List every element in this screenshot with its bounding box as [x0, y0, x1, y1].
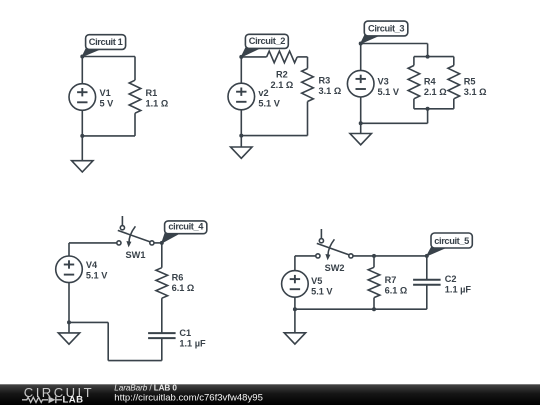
voltage source V3 [360, 44, 362, 71]
svg-text:Circuit 1: Circuit 1 [89, 37, 123, 47]
resistor R4 [413, 57, 415, 66]
logo: resistor zigzag [22, 397, 48, 402]
wire: circuit 4 bottom rail [108, 360, 162, 362]
flag: circuit_5 callout [427, 247, 446, 256]
svg-text:C2: C2 [445, 274, 457, 284]
svg-text:SW1: SW1 [126, 250, 146, 260]
svg-text:circuit_4: circuit_4 [168, 222, 204, 232]
svg-text:Circuit_3: Circuit_3 [368, 24, 404, 34]
wire: circuit 2 right branch [307, 57, 309, 69]
wire: parallel bottom rail [414, 108, 454, 110]
wire: circuit 1 right branch top lead [134, 57, 136, 81]
voltage source V5 [294, 256, 296, 271]
svg-text:V5: V5 [311, 276, 322, 286]
wire: circuit 2 bottom rail [241, 135, 307, 137]
wire: R7 bottom lead [373, 298, 375, 310]
wire: R3 bottom lead [307, 102, 309, 136]
flag: Circuit_3 callout [361, 34, 380, 43]
resistor R1 [129, 80, 141, 113]
wire: feed to parallel pair [427, 44, 429, 57]
wire: C2 bottom lead [426, 285, 428, 309]
node: R7 bottom junction [372, 307, 376, 311]
capacitor C1 [148, 332, 176, 334]
svg-text:R4: R4 [424, 77, 437, 87]
wire: circuit 5 bottom rail [295, 308, 427, 310]
wire: R1 bottom lead [134, 113, 136, 136]
node: circuit 4 ground junction [67, 320, 71, 324]
flag: Circuit 1 callout [82, 48, 100, 57]
wire: SW2 to C2 branch [353, 255, 427, 257]
node: circuit 3 bottom junction [359, 121, 363, 125]
svg-text:V4: V4 [86, 260, 98, 270]
wire: C1 bottom lead [161, 338, 163, 361]
node: circuit 3 top junction [359, 42, 363, 46]
svg-text:2.1 Ω: 2.1 Ω [271, 80, 294, 90]
node: parallel top junction [426, 55, 430, 59]
node: parallel bottom junction [426, 107, 430, 111]
svg-text:3.1 Ω: 3.1 Ω [464, 87, 487, 97]
node: circuit 2 bottom junction [239, 134, 243, 138]
wire: SW1 to node [154, 242, 162, 244]
svg-text:2.1 Ω: 2.1 Ω [424, 87, 447, 97]
svg-text:R5: R5 [464, 77, 476, 87]
resistor R5 [453, 57, 455, 66]
svg-text:http://circuitlab.com/c76f3vfw: http://circuitlab.com/c76f3vfw48y95 [114, 392, 263, 403]
wire: circuit 3 bottom rail [361, 122, 428, 124]
ground: circuit 3 [360, 123, 362, 133]
wire: circuit 1 top rail [82, 56, 135, 58]
ground: circuit 2 [240, 136, 242, 147]
ground: circuit 5 [294, 309, 296, 333]
node: circuit 1 bottom junction [80, 134, 84, 138]
wire: circuit 3 top rail [361, 43, 428, 45]
node: circuit 1 top junction [80, 55, 84, 59]
svg-text:V3: V3 [378, 77, 389, 87]
node: R7 top junction [372, 254, 376, 258]
svg-text:R7: R7 [385, 275, 397, 285]
node: circuit 2 top junction [239, 55, 243, 59]
svg-text:1.1 Ω: 1.1 Ω [146, 98, 169, 108]
wire: circuit 2 top-left segment [241, 56, 266, 58]
wire: R6 to C1 [161, 298, 163, 333]
flag: circuit_4 callout [162, 232, 180, 243]
voltage source v2 [240, 57, 242, 83]
node: circuit 4 named node [160, 241, 164, 245]
capacitor C2 [413, 279, 441, 281]
resistor R3 [302, 69, 314, 102]
switch SW2 [320, 229, 322, 239]
voltage source V1 [81, 57, 83, 84]
svg-text:V1: V1 [100, 88, 111, 98]
svg-text:5.1 V: 5.1 V [86, 270, 108, 280]
wire: circuit 5 top rail left [295, 255, 316, 257]
logo: diode symbol [49, 396, 56, 403]
svg-text:5.1 V: 5.1 V [258, 99, 280, 109]
svg-text:R3: R3 [319, 75, 331, 85]
node: circuit 5 named node [425, 254, 429, 258]
svg-text:6.1 Ω: 6.1 Ω [172, 283, 195, 293]
flag: Circuit_2 callout [241, 47, 260, 57]
svg-text:5.1 V: 5.1 V [378, 87, 400, 97]
svg-text:6.1 Ω: 6.1 Ω [385, 286, 408, 296]
wire: bottom rail riser [107, 322, 109, 360]
svg-text:LaraBarb / LAB 0: LaraBarb / LAB 0 [114, 384, 177, 393]
wire: parallel pair to bottom rail [427, 109, 429, 124]
svg-text:R6: R6 [172, 273, 184, 283]
svg-text:3.1 Ω: 3.1 Ω [319, 86, 342, 96]
svg-text:R2: R2 [276, 69, 288, 79]
wire: R7 branch top lead [373, 256, 375, 267]
svg-text:5.1 V: 5.1 V [311, 287, 333, 297]
resistor R7 [368, 267, 380, 297]
switch SW1 [121, 216, 123, 226]
svg-text:v2: v2 [258, 88, 268, 98]
wire: node down to R6 [161, 243, 163, 268]
ground: circuit 4 [68, 322, 70, 333]
svg-text:R1: R1 [146, 88, 158, 98]
svg-text:LAB: LAB [63, 395, 84, 405]
wire: R2 to corner [297, 56, 307, 58]
wire: circuit 1 bottom rail [82, 135, 135, 137]
wire: circuit 4 top rail left [69, 242, 117, 244]
ground: circuit 1 [81, 136, 83, 161]
voltage source V4 [68, 243, 70, 256]
resistor R6 [156, 268, 168, 299]
wire: C2 top lead [426, 256, 428, 280]
svg-text:C1: C1 [179, 328, 191, 338]
footer bar [0, 384, 540, 405]
svg-text:SW2: SW2 [325, 263, 345, 273]
wire: parallel top rail [414, 56, 454, 58]
resistor R2 [267, 51, 298, 63]
wire: riser to ground node [69, 321, 108, 323]
svg-text:1.1 µF: 1.1 µF [445, 285, 472, 295]
svg-text:1.1 µF: 1.1 µF [179, 338, 206, 348]
node: circuit 5 ground junction [293, 307, 297, 311]
svg-text:circuit_5: circuit_5 [434, 236, 469, 246]
svg-text:5 V: 5 V [100, 98, 115, 108]
svg-text:Circuit_2: Circuit_2 [249, 36, 285, 46]
